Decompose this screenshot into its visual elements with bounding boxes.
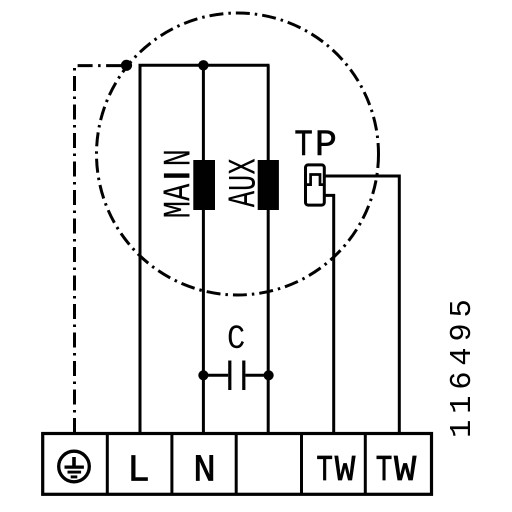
- svg-text:P: P: [315, 125, 337, 167]
- terminal divider 2: [170, 434, 173, 495]
- terminal divider 4: [300, 434, 303, 495]
- node: capacitor left junction: [198, 370, 208, 380]
- svg-text:W: W: [335, 450, 356, 491]
- protective-earth dash-dot line: [75, 66, 127, 433]
- TP contact: [307, 175, 323, 185]
- winding AUX (black rect): [258, 160, 279, 210]
- svg-text:C: C: [227, 319, 245, 358]
- terminal divider 3: [235, 434, 238, 495]
- node: top rail junction: [198, 60, 208, 70]
- svg-text:AUX: AUX: [223, 158, 267, 207]
- svg-text:T: T: [294, 126, 312, 167]
- svg-text:T: T: [376, 450, 393, 491]
- wire: top rail: [139, 64, 270, 67]
- wire: N vertical: [202, 65, 205, 433]
- terminal divider 5: [364, 434, 367, 495]
- wire: AUX vertical: [267, 65, 270, 433]
- wire: capacitor left lead: [203, 374, 228, 377]
- terminal strip outline: [43, 434, 432, 495]
- wire: capacitor right lead: [245, 374, 268, 377]
- winding MAIN (black rect): [193, 160, 215, 210]
- ground symbol: [59, 451, 90, 482]
- svg-text:T: T: [316, 450, 333, 491]
- svg-text:MA N: MA N: [159, 149, 202, 218]
- capacitor C plates: [228, 361, 231, 391]
- terminal divider 1: [106, 434, 109, 495]
- svg-text:N: N: [193, 450, 216, 492]
- svg-text:W: W: [394, 450, 416, 490]
- node: circle/earth junction: [121, 60, 132, 71]
- wire: TP lower to TW1: [324, 195, 333, 433]
- thermal protector TP body: [306, 165, 325, 205]
- wire: TP upper to TW2: [324, 176, 399, 434]
- svg-text:L: L: [127, 450, 150, 492]
- motor boundary dash-dot circle: [97, 13, 379, 295]
- svg-text:116495: 116495: [446, 293, 480, 438]
- node: capacitor right junction: [264, 370, 274, 380]
- wire: L vertical: [139, 65, 142, 433]
